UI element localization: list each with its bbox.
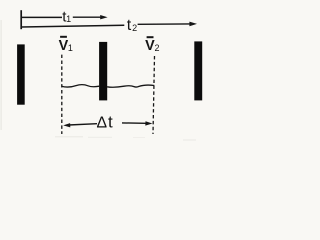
svg-text:V: V <box>59 37 69 54</box>
svg-text:1: 1 <box>66 14 71 24</box>
svg-text:2: 2 <box>155 43 160 53</box>
svg-text:V: V <box>145 37 155 54</box>
svg-text:Δ: Δ <box>97 115 108 132</box>
svg-text:2: 2 <box>132 23 137 33</box>
svg-text:t: t <box>127 17 132 34</box>
svg-text:t: t <box>108 112 113 131</box>
svg-text:1: 1 <box>68 43 73 53</box>
